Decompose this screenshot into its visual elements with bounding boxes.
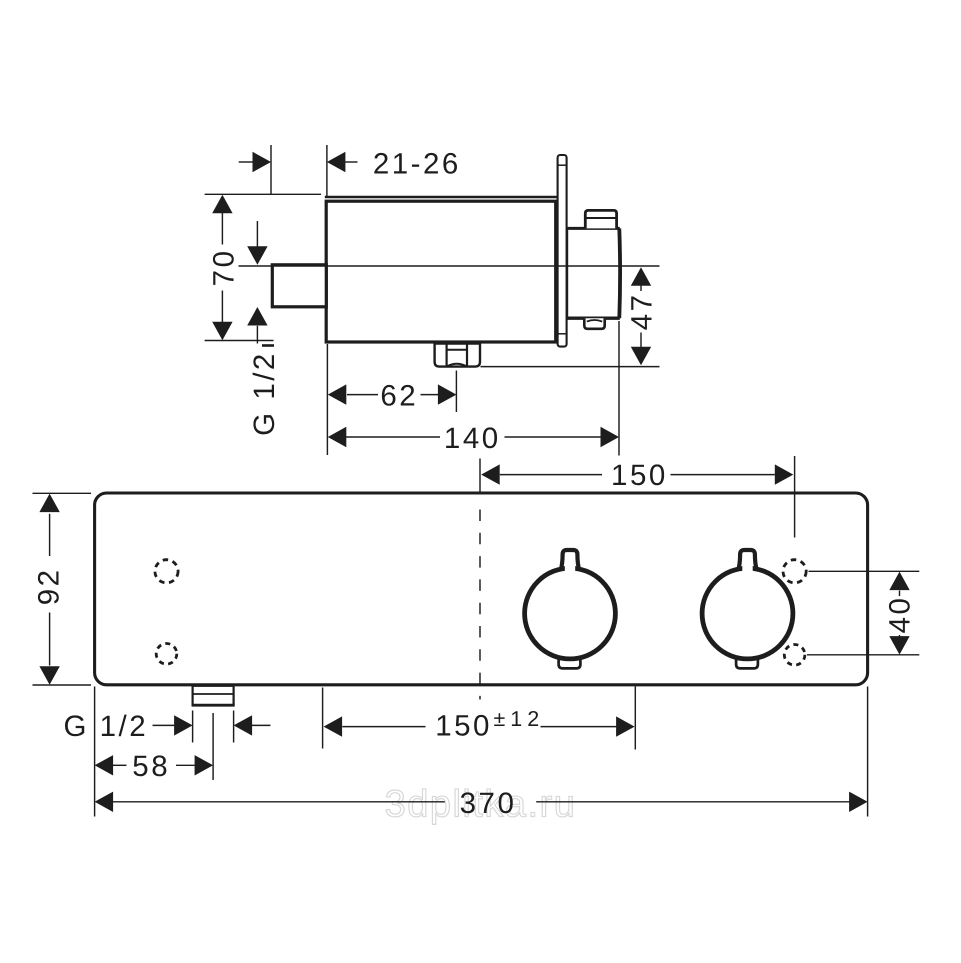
dimension 21-26 xyxy=(239,145,461,196)
svg-text:150: 150 xyxy=(435,710,492,743)
valve body xyxy=(325,197,557,342)
handle side view xyxy=(566,210,620,328)
svg-text:370: 370 xyxy=(460,787,517,820)
dimension G 1/2 side xyxy=(247,221,281,436)
dimension G 1/2 front xyxy=(63,710,270,743)
bottom hose nut xyxy=(435,344,480,367)
center dashed line xyxy=(479,459,481,700)
parting line through body xyxy=(239,265,660,267)
right mounting holes dashed xyxy=(783,560,806,665)
wall plate xyxy=(558,155,567,347)
knob 2 front xyxy=(702,550,793,668)
wall outlet box G1/2 xyxy=(272,265,326,307)
svg-text:40: 40 xyxy=(884,596,917,634)
svg-text:140: 140 xyxy=(444,422,501,455)
dimension 47 xyxy=(481,267,660,366)
dimension 58 xyxy=(95,713,214,783)
svg-text:G 1/2: G 1/2 xyxy=(63,710,148,743)
dimension 150 +-12 xyxy=(323,687,636,750)
svg-text:G 1/2: G 1/2 xyxy=(248,351,281,436)
dimension 92 xyxy=(33,493,92,685)
svg-text:58: 58 xyxy=(132,750,170,783)
dimension 370 xyxy=(95,687,868,820)
knob 1 front xyxy=(525,550,616,668)
dimension 62 xyxy=(327,344,456,455)
svg-text:21-26: 21-26 xyxy=(373,148,461,181)
svg-text:150: 150 xyxy=(611,459,668,492)
svg-text:±12: ±12 xyxy=(494,707,545,731)
left mounting holes dashed xyxy=(155,560,178,664)
svg-text:92: 92 xyxy=(33,567,66,605)
svg-text:70: 70 xyxy=(208,248,241,286)
svg-text:47: 47 xyxy=(626,292,659,330)
bottom outlet fitting front xyxy=(192,686,235,705)
dimension 40 xyxy=(807,571,919,655)
front body xyxy=(95,493,868,685)
watermark 3dplitka.ru xyxy=(385,784,577,826)
svg-text:62: 62 xyxy=(380,380,418,413)
dimension 70 xyxy=(205,194,321,340)
dimension 150 top xyxy=(481,456,794,538)
dimension 140 xyxy=(328,321,619,456)
